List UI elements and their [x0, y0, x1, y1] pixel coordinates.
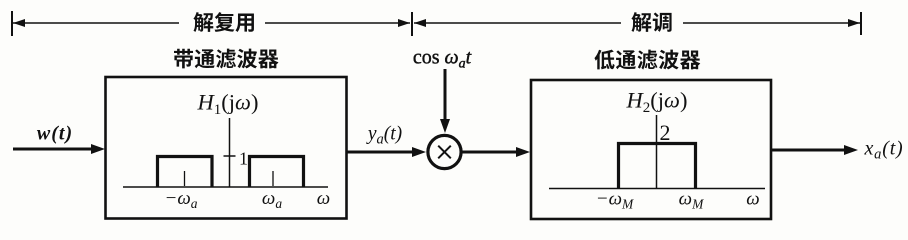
- block U2 低通滤波器 box: [531, 80, 771, 219]
- svg-text:ω: ω: [746, 189, 759, 210]
- wire dimension line 解调 left segment: [414, 22, 621, 24]
- svg-text:w(t): w(t): [37, 123, 73, 145]
- node tick at +wa: [272, 171, 274, 186]
- label 带通滤波器 (bandpass filter title): [174, 49, 279, 69]
- wire dimension line 解复用 left segment: [13, 22, 179, 24]
- wire vertical axis of H2 plot: [656, 115, 658, 189]
- node tick at -wa: [184, 171, 186, 186]
- wire frequency axis of H2 plot: [549, 188, 765, 190]
- svg-text:xa(t): xa(t): [863, 138, 903, 163]
- wire arrow from cos label down into multiplier: [444, 69, 447, 124]
- passband rectangle right (positive freq): [250, 157, 304, 188]
- wire dimension line 解复用 right segment: [265, 22, 410, 24]
- block U1 带通滤波器 box: [106, 77, 347, 219]
- passband rectangle left (negative freq): [158, 157, 213, 188]
- tick left end of 解复用 span: [11, 11, 13, 36]
- svg-text:H2(jω): H2(jω): [626, 88, 688, 117]
- svg-text:H1(jω): H1(jω): [197, 90, 259, 119]
- svg-text:ω: ω: [317, 188, 330, 209]
- tick right end of 解调 span: [860, 12, 862, 35]
- svg-text:1: 1: [239, 149, 248, 169]
- label 低通滤波器 (lowpass filter title): [594, 50, 700, 70]
- wire frequency axis of H1 plot: [123, 186, 328, 188]
- tick middle between spans: [411, 12, 413, 36]
- label 解复用: [193, 12, 254, 32]
- wire arrow from bandpass to multiplier: [347, 151, 417, 154]
- multiplier node (circle with X): [428, 135, 461, 168]
- label 解调: [631, 12, 671, 32]
- wire vertical axis of H1 plot: [229, 118, 231, 187]
- node tick at height 1: [224, 155, 236, 157]
- wire output arrow from lowpass block: [771, 149, 848, 152]
- wire arrow from multiplier to lowpass block: [462, 151, 521, 154]
- svg-text:ya(t): ya(t): [366, 124, 402, 148]
- wire input arrow into bandpass block: [13, 148, 95, 151]
- wire dimension line 解调 right segment: [683, 22, 860, 24]
- passband rectangle lowpass: [619, 144, 696, 189]
- svg-text:2: 2: [660, 120, 671, 145]
